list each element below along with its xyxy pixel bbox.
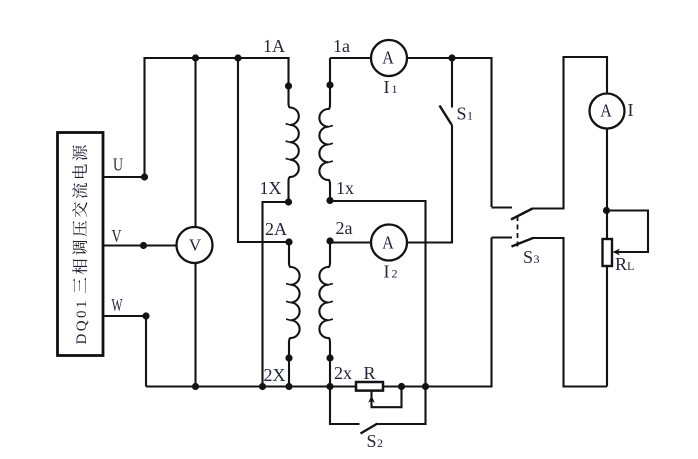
svg-text:L: L — [627, 259, 634, 273]
svg-text:S: S — [367, 431, 377, 451]
svg-text:U: U — [113, 155, 123, 175]
svg-text:A: A — [382, 233, 394, 253]
svg-text:1A: 1A — [263, 36, 285, 56]
svg-text:1: 1 — [392, 82, 398, 96]
svg-text:1a: 1a — [333, 36, 350, 56]
svg-text:A: A — [600, 101, 612, 121]
svg-text:V: V — [189, 236, 202, 255]
svg-text:2a: 2a — [336, 218, 353, 238]
svg-text:I: I — [384, 77, 390, 97]
svg-text:A: A — [382, 48, 394, 68]
svg-text:2: 2 — [377, 436, 383, 450]
svg-text:S: S — [523, 247, 533, 267]
svg-text:S: S — [457, 104, 467, 124]
svg-text:I: I — [628, 100, 634, 120]
svg-text:V: V — [112, 226, 122, 246]
svg-text:3: 3 — [534, 252, 540, 266]
svg-text:1X: 1X — [260, 178, 282, 198]
svg-text:I: I — [384, 262, 390, 282]
svg-text:1x: 1x — [336, 178, 354, 198]
svg-text:2X: 2X — [264, 365, 286, 385]
svg-text:R: R — [615, 254, 627, 274]
svg-text:2A: 2A — [265, 219, 287, 239]
svg-text:2: 2 — [392, 267, 398, 281]
svg-text:2x: 2x — [334, 363, 352, 383]
svg-text:W: W — [112, 295, 123, 315]
svg-text:DQ01: DQ01 — [74, 298, 90, 344]
svg-text:R: R — [364, 363, 376, 383]
svg-text:1: 1 — [467, 109, 473, 123]
